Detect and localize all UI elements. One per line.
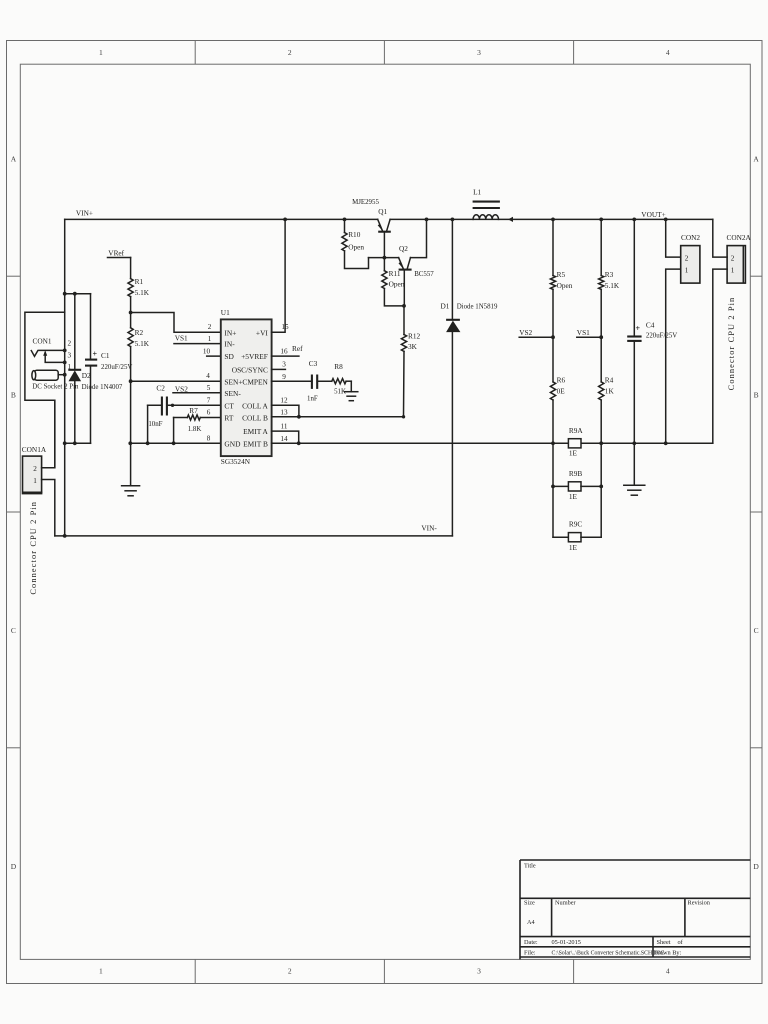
svg-text:Diode 1N4007: Diode 1N4007 [82, 384, 123, 391]
svg-text:VS2: VS2 [519, 328, 532, 337]
ground symbol right [624, 485, 645, 495]
op-amp U1 SG3524N body [221, 319, 272, 456]
svg-text:Diode 1N5819: Diode 1N5819 [457, 303, 498, 310]
junction bottom tie [63, 441, 67, 445]
svg-text:1K: 1K [605, 387, 615, 396]
wire R9B branch left [552, 443, 554, 486]
svg-text:CON2: CON2 [681, 233, 700, 242]
svg-text:of: of [678, 939, 684, 946]
svg-text:6: 6 [207, 409, 211, 417]
junction SEN+ tap [129, 379, 133, 383]
svg-text:Open: Open [557, 281, 573, 290]
junction C4/rail [632, 441, 636, 445]
svg-text:5.1K: 5.1K [605, 281, 620, 290]
junction R12 end [402, 415, 405, 418]
svg-text:COLL B: COLL B [242, 414, 268, 423]
svg-text:2: 2 [731, 254, 735, 262]
svg-text:Date:: Date: [524, 939, 538, 946]
junction R9B right top [599, 441, 603, 445]
diode D2 labels [82, 371, 123, 391]
svg-text:D1: D1 [441, 301, 450, 310]
junction CT wire [171, 404, 174, 407]
junction R9C right [599, 485, 603, 489]
svg-text:R5: R5 [557, 270, 566, 279]
capacitor C1 [85, 294, 98, 444]
wire EMIT B rail [272, 442, 569, 444]
wire CON2 pin 1 [666, 269, 681, 443]
svg-text:B: B [754, 390, 759, 399]
resistor R8 [332, 379, 352, 392]
svg-text:Revision: Revision [688, 900, 711, 907]
resistor R9B [553, 482, 601, 491]
title block [520, 860, 750, 959]
resistor R6 [550, 382, 555, 443]
svg-text:Open: Open [348, 242, 364, 251]
svg-text:Sheet: Sheet [657, 939, 671, 946]
svg-text:1nF: 1nF [307, 395, 318, 402]
svg-text:8: 8 [207, 435, 211, 443]
svg-text:R2: R2 [135, 328, 144, 337]
svg-text:COLL A: COLL A [242, 401, 268, 410]
CON1 pin numbers 2 3 1 [68, 339, 72, 371]
svg-text:VS1: VS1 [577, 328, 590, 337]
junction R9C left [551, 485, 555, 489]
resistor R11 [382, 258, 404, 306]
svg-text:R4: R4 [605, 375, 614, 384]
svg-text:SD: SD [224, 352, 234, 361]
svg-text:SG3524N: SG3524N [221, 457, 251, 466]
svg-text:OSC/SYNC: OSC/SYNC [232, 365, 268, 374]
svg-text:CMPEN: CMPEN [242, 378, 268, 387]
svg-text:L1: L1 [473, 188, 481, 197]
svg-text:C: C [754, 626, 759, 635]
junction CON2 pin1/rail [664, 441, 668, 445]
junction R9B left top [551, 441, 555, 445]
svg-text:D: D [11, 862, 17, 871]
wire R9C branch right [600, 486, 602, 537]
capacitor C4 [627, 218, 641, 444]
svg-text:R8: R8 [334, 362, 343, 371]
svg-text:D: D [753, 862, 759, 871]
svg-text:Ref: Ref [292, 344, 303, 353]
resistor R9A labels [569, 426, 584, 458]
wire COLL A to COLL B [272, 405, 299, 417]
resistor R11 labels [389, 269, 405, 288]
wire CON2A pin 2 [713, 219, 727, 257]
resistor R9B labels [569, 469, 583, 501]
inductor L1 [473, 202, 500, 220]
svg-text:R6: R6 [557, 375, 566, 384]
resistor R3 labels [605, 270, 620, 290]
resistor R2 [128, 313, 133, 444]
junction gnd tie [128, 441, 132, 445]
resistor R5 [550, 218, 555, 382]
svg-text:Title: Title [524, 863, 536, 870]
node Ref stub pin16 [272, 344, 304, 356]
junction EMIT B [297, 441, 301, 445]
wire bottom tie bus/D2/C1 [65, 442, 91, 444]
svg-text:13: 13 [280, 409, 288, 417]
svg-text:VS1: VS1 [175, 333, 188, 342]
svg-text:R9C: R9C [569, 519, 583, 528]
resistor R2 labels [135, 328, 150, 348]
svg-text:+: + [93, 349, 98, 358]
resistor R10 labels [348, 230, 364, 251]
resistor R7 labels [188, 406, 202, 433]
junction top tie [63, 292, 67, 296]
resistor R12 [401, 304, 406, 417]
U1 left pin numbers [203, 323, 212, 442]
CON1 switch contact symbol [31, 350, 64, 362]
junction R1/R2 [129, 311, 133, 315]
svg-text:Open: Open [389, 280, 405, 289]
svg-text:4: 4 [666, 967, 670, 976]
svg-text:IN+: IN+ [224, 328, 236, 337]
svg-text:R9A: R9A [569, 426, 584, 435]
svg-text:0E: 0E [557, 387, 566, 396]
title block text [524, 863, 711, 957]
wire VRef bar [108, 257, 131, 259]
svg-text:D2: D2 [82, 371, 91, 380]
svg-text:MJE2955: MJE2955 [352, 199, 379, 206]
node VS1 stub right [577, 328, 603, 339]
resistor R1 labels [135, 277, 150, 297]
wire GND tie to U1 [130, 442, 221, 444]
node VS2 stub right [519, 328, 555, 339]
svg-text:3K: 3K [408, 342, 418, 351]
resistor R8 labels [334, 362, 346, 395]
svg-text:SEN-: SEN- [224, 389, 241, 398]
svg-text:DC Socket 2 Pin: DC Socket 2 Pin [32, 383, 79, 390]
svg-text:BC557: BC557 [414, 271, 434, 278]
svg-text:220uF/25V: 220uF/25V [101, 364, 132, 371]
svg-text:3: 3 [477, 48, 481, 57]
svg-text:3: 3 [282, 361, 286, 369]
svg-text:RT: RT [224, 414, 233, 423]
wire VIN- rail [55, 535, 453, 537]
U1 left pin names [224, 328, 242, 448]
wire CON1A pin 1 [42, 480, 55, 536]
capacitor C3 labels [307, 359, 318, 403]
svg-text:CT: CT [224, 401, 234, 410]
connector CON2A box [727, 246, 745, 284]
wire top tie VIN+ bus to D2/C1 [65, 293, 91, 295]
svg-text:Q2: Q2 [399, 244, 408, 253]
U1 right pin names [232, 328, 269, 448]
transistor Q1 MJE2955 [378, 219, 391, 257]
svg-text:C1: C1 [101, 351, 110, 360]
wire Q1 base node [369, 257, 399, 259]
transistor Q2 labels [399, 244, 434, 278]
junction Q1 base [383, 256, 387, 260]
svg-text:SEN+: SEN+ [224, 378, 242, 387]
svg-text:IN-: IN- [224, 340, 235, 349]
svg-text:10: 10 [203, 347, 211, 355]
svg-text:EMIT B: EMIT B [243, 440, 268, 449]
wire left vertical bus [64, 219, 66, 536]
svg-text:+5VREF: +5VREF [241, 352, 268, 361]
resistor R9C labels [569, 519, 583, 552]
svg-text:5.1K: 5.1K [135, 288, 150, 297]
svg-text:9: 9 [282, 373, 286, 381]
svg-text:7: 7 [207, 397, 211, 405]
resistor R12 labels [408, 331, 421, 351]
svg-text:12: 12 [280, 397, 288, 405]
svg-text:+: + [636, 324, 641, 333]
svg-text:Connector CPU 2 Pin: Connector CPU 2 Pin [29, 501, 38, 595]
svg-text:2: 2 [208, 323, 212, 331]
resistor R6 labels [557, 375, 566, 395]
svg-text:C4: C4 [646, 321, 655, 330]
resistor R9C [553, 533, 601, 542]
svg-text:R1: R1 [135, 277, 144, 286]
junction VIN- / left bus [63, 534, 67, 538]
svg-text:CON2A: CON2A [727, 233, 752, 242]
junctions CON1 pins on bus [63, 349, 67, 377]
svg-text:2: 2 [288, 967, 292, 976]
wire SEN+ to divider bus [131, 380, 221, 382]
svg-text:4: 4 [666, 48, 670, 57]
resistor R7 [172, 415, 221, 445]
connector CON1A box [23, 456, 42, 494]
svg-text:2: 2 [288, 48, 292, 57]
svg-text:C:\Solar\..\Buck Converter Sch: C:\Solar\..\Buck Converter Schematic.SCH… [552, 950, 665, 956]
svg-text:U1: U1 [221, 308, 230, 317]
svg-text:2: 2 [68, 339, 72, 347]
node VS2 stub at SEN- [173, 385, 221, 394]
ground symbol left [122, 486, 140, 496]
svg-text:1: 1 [685, 266, 689, 274]
resistor R4 [599, 382, 604, 443]
wire EMIT A to EMIT B [272, 431, 299, 443]
svg-text:1: 1 [731, 266, 735, 274]
svg-text:R7: R7 [189, 406, 198, 415]
svg-text:1E: 1E [569, 449, 578, 458]
wire SD stub [207, 355, 221, 357]
capacitor C4 labels [646, 321, 677, 340]
svg-text:3: 3 [68, 352, 72, 360]
connector CON2 box [681, 246, 700, 284]
connector CON1 outline [25, 312, 65, 468]
svg-text:1: 1 [33, 477, 37, 485]
svg-text:A: A [11, 155, 17, 164]
svg-text:R12: R12 [408, 331, 421, 340]
diode D2 [68, 292, 81, 445]
capacitor C1 labels [101, 351, 132, 371]
svg-text:B: B [11, 390, 16, 399]
junction CON2 pin2 riser [664, 218, 668, 222]
svg-text:1E: 1E [569, 543, 578, 552]
wire COLL B to R12 [272, 416, 404, 418]
wire arrow after L1 [508, 217, 513, 222]
resistor R10 [342, 218, 369, 269]
resistor R4 labels [605, 375, 615, 395]
svg-text:Q1: Q1 [378, 207, 387, 216]
svg-text:CON1: CON1 [33, 337, 52, 346]
svg-text:R10: R10 [348, 230, 361, 239]
capacitor C2 [146, 397, 221, 446]
svg-text:2: 2 [685, 254, 689, 262]
svg-text:10nF: 10nF [148, 421, 162, 428]
svg-text:5: 5 [207, 384, 211, 392]
resistor R5 labels [557, 270, 573, 290]
svg-text:C: C [11, 626, 16, 635]
wire sense rail right of R9A [581, 442, 713, 444]
svg-text:A4: A4 [527, 919, 536, 926]
svg-text:+VI: +VI [256, 328, 269, 337]
CON1 barrel (DC socket) symbol [32, 370, 65, 380]
svg-text:Drawn By:: Drawn By: [654, 949, 682, 956]
wire R9B branch right [600, 443, 602, 486]
svg-text:2: 2 [33, 465, 37, 473]
svg-text:A: A [753, 155, 759, 164]
svg-text:Number: Number [555, 900, 577, 907]
svg-text:VIN+: VIN+ [76, 209, 93, 218]
svg-text:VOUT+: VOUT+ [641, 210, 665, 219]
svg-text:11: 11 [281, 422, 288, 430]
svg-text:C3: C3 [309, 359, 318, 368]
U1 right pin numbers [280, 323, 289, 443]
svg-text:05-01-2015: 05-01-2015 [552, 939, 581, 946]
junction +VI riser [283, 218, 287, 222]
svg-text:File:: File: [524, 949, 536, 956]
svg-text:1: 1 [208, 335, 212, 343]
svg-text:16: 16 [280, 347, 288, 355]
diode D1 [446, 218, 460, 536]
wire C4 ground drop [633, 443, 635, 485]
svg-text:1E: 1E [569, 492, 578, 501]
wire divider junction to IN+ [131, 313, 221, 333]
svg-text:1: 1 [99, 48, 103, 57]
svg-text:C2: C2 [156, 383, 165, 392]
svg-text:R9B: R9B [569, 469, 583, 478]
svg-text:3: 3 [477, 967, 481, 976]
node VS1 stub at IN- [174, 333, 221, 343]
svg-text:1.8K: 1.8K [188, 426, 202, 433]
junction COLL B [297, 415, 301, 419]
resistor R3 [599, 218, 604, 382]
svg-text:Connector CPU 2 Pin: Connector CPU 2 Pin [727, 297, 736, 391]
svg-text:CON1A: CON1A [22, 445, 47, 454]
resistor R9A [568, 439, 581, 448]
wire CON2 pin 2 [666, 219, 681, 257]
svg-text:VIN-: VIN- [421, 524, 437, 533]
svg-text:R3: R3 [605, 270, 614, 279]
svg-text:220uF/25V: 220uF/25V [646, 332, 677, 339]
diode D1 labels [441, 301, 499, 310]
wire switch rail [390, 218, 713, 220]
transistor Q1 labels [352, 199, 387, 216]
capacitor C3 [312, 375, 332, 389]
wire CON2A pin 1 [713, 269, 727, 443]
wire CON1A pin 2 [42, 400, 55, 468]
wire ground drop below R2 [130, 443, 132, 485]
ground symbol at R8 [345, 392, 358, 401]
transistor Q2 BC557 [399, 218, 429, 306]
svg-text:5.1K: 5.1K [135, 339, 150, 348]
svg-text:Size: Size [524, 900, 535, 907]
svg-text:4: 4 [206, 372, 210, 380]
svg-text:14: 14 [280, 435, 288, 443]
wire VIN+ top rail [65, 218, 378, 220]
svg-text:EMIT A: EMIT A [243, 427, 268, 436]
svg-text:1: 1 [99, 967, 103, 976]
svg-text:VRef: VRef [108, 248, 124, 257]
svg-text:GND: GND [224, 440, 241, 449]
wire R9C branch left [552, 486, 554, 537]
wire CMPEN to C3 [272, 380, 312, 382]
wire +VI riser from VIN+ [272, 219, 286, 332]
resistor R1 [128, 258, 133, 313]
wire OSC/SYNC stub [272, 368, 286, 370]
capacitor C2 labels [148, 383, 165, 427]
